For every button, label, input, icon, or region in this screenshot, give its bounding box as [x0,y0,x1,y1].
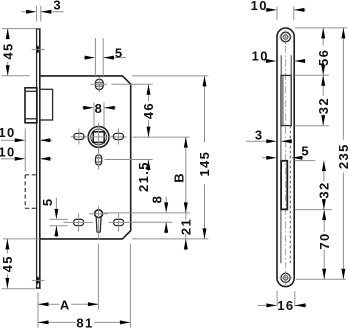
spindle follower U-hub [88,126,109,147]
svg-text:10: 10 [0,125,16,140]
dimension 46 (top slot to spindle) [141,84,156,137]
latch bolt body [40,89,53,120]
top fixing slot [95,79,103,89]
keyhole centerlines [89,206,108,239]
hidden case lines (dashed) [281,126,290,264]
dimension 81 (case depth) [38,316,130,331]
dimension B (spindle to keyhole) [172,137,188,213]
dimension 32 (key slot) [317,161,332,210]
dimension 45 top (faceplate top to case) [0,29,15,76]
lines above latch opening [281,55,291,75]
extension line below-spindle slot (for 21.5) [105,159,153,161]
svg-text:32: 32 [317,181,332,198]
top slot centerlines [91,76,107,92]
svg-text:10: 10 [251,0,268,13]
svg-text:32: 32 [316,97,331,114]
dimension 145 (case height) [197,76,212,239]
deadbolt (hidden, dashed) [25,175,36,209]
dimension 10 (latch protrusion) [0,125,52,172]
top screw hole front [279,30,292,44]
extension lines A/81 [38,244,130,328]
svg-text:45: 45 [0,42,15,59]
faceplate centerline (dash-dot) [285,46,287,268]
extension lines left side [2,29,40,289]
svg-text:145: 145 [197,151,212,177]
svg-text:8: 8 [150,195,165,204]
svg-text:16: 16 [277,298,294,313]
svg-text:70: 70 [317,232,332,249]
faceplate front outline [277,28,294,287]
keyhole [95,210,103,232]
screw post slot left of spindle [74,128,84,144]
extension line keyhole center (for B/8) [104,212,190,214]
svg-text:46: 46 [141,102,156,119]
faceplate top screw hole (section) [32,46,45,53]
extension line top slot center (for 46) [112,83,153,85]
lock case outline [40,76,131,239]
svg-text:A: A [60,297,71,312]
dimension 16 (plate width) [258,291,307,313]
svg-text:21.5: 21.5 [136,161,151,192]
latch opening front [281,75,291,125]
dimension 3 (faceplate thickness) [22,0,64,22]
dimension 8 (keyhole to slot center) [150,195,169,234]
screw post slot right of keyhole [109,213,129,231]
dimension 45 bottom (case to faceplate end) [0,239,15,289]
dimension 3 (plate to case) [246,127,292,143]
extension line keyhole-slot center (for 8) [126,221,173,223]
svg-text:3: 3 [53,0,62,12]
screw post slot left of keyhole [63,213,93,231]
svg-text:235: 235 [336,143,350,169]
extension line spindle center (for 46/B) [133,136,190,138]
svg-text:10: 10 [0,145,16,160]
extension lines 5 (keyhole slot height) [49,219,67,225]
svg-text:81: 81 [76,316,93,331]
dimension 21.5 (spindle to lower slot) [136,160,151,193]
svg-text:10: 10 [252,48,269,63]
extension lines right view [295,28,348,279]
svg-text:21: 21 [178,218,193,235]
dimension 8 (follower square) [82,101,116,127]
key/deadbolt slot front [281,161,287,210]
svg-text:3: 3 [255,127,264,142]
svg-text:56: 56 [316,49,331,66]
svg-text:5: 5 [301,144,310,159]
svg-text:5: 5 [40,197,55,206]
bottom screw hole front [279,271,292,285]
faceplate (side view) [36,29,41,289]
dimension 10 (plate width top) [251,0,306,20]
dimension 56 [316,28,331,75]
faceplate bottom screw hole (section) [32,277,45,284]
latch bolt head [25,88,37,123]
dimension 5 (keyhole slot height) [40,197,58,237]
dimension 32 (latch opening) [316,75,331,126]
svg-text:5: 5 [115,45,124,60]
slot below spindle [96,151,102,170]
svg-text:8: 8 [95,101,104,116]
extension lines case top/bottom right side [132,76,208,239]
dimension A (backset) [38,297,98,312]
dimension 10 (deadbolt protrusion) [0,145,52,161]
spindle centerlines [71,123,127,153]
dimension 70 [317,210,332,280]
screw post slot right of spindle [113,128,123,144]
svg-text:45: 45 [0,255,15,272]
dimension 10 (second) [252,48,306,63]
dimension 21 (keyhole to case bottom) [178,213,193,251]
dimension 5 (key slot width) [262,144,310,160]
svg-text:B: B [172,172,187,183]
dimension 235 (plate length) [336,28,350,279]
dimension 5 (top slot width) [84,38,127,76]
